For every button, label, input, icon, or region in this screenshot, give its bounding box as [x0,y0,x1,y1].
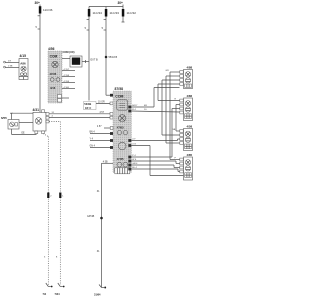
wire antenna to junction [82,59,98,64]
wire fuse 11C/33 down to module 87/58 [106,17,113,96]
svg-text:COM: COM [115,95,123,99]
svg-text:6/55: 6/55 [1,116,7,120]
pin 87/58 right r6 [128,160,131,163]
wire 4/31 to module 87/58 pin b [49,116,113,119]
svg-text:GR: GR [166,70,170,72]
svg-text:47/35: 47/35 [117,157,124,161]
wire 6/55 top stub [10,113,13,119]
pin 87/58 right r2 [128,110,131,113]
unit 4/88 [180,66,193,89]
svg-text:BL 4: BL 4 [132,167,137,169]
wire 87/58 left lead 1 [90,132,114,135]
svg-text:EXT B: EXT B [91,59,99,62]
svg-text:7/34: 7/34 [55,292,61,296]
svg-text:52/4B: 52/4B [84,102,91,106]
svg-text:G/H4B: G/H4B [87,215,95,218]
wire 87/58 stub left [97,126,113,129]
pin 87/58 right r8 [128,168,131,171]
wire riser unit 4/86 pin 2 to unit 4/58 pin 1 [176,105,180,132]
module 4/56 [48,47,62,103]
wire 6/55 to relay 4/31 lower [19,122,33,124]
svg-text:30+: 30+ [118,1,124,5]
svg-text:4 160: 4 160 [64,87,70,89]
svg-text:47/35: 47/35 [50,72,57,76]
wire 87/58 r1 to unit 4/88 bottom pin [131,88,179,108]
svg-text:COM: COM [50,54,58,58]
unit 4/85 [180,153,193,180]
svg-text:4/86: 4/86 [187,94,193,98]
svg-text:4 G: 4 G [132,144,136,146]
wire 4/56 to antenna [62,58,70,60]
ground 7/4 [43,283,53,296]
node 55/43 splice [105,56,118,59]
svg-text:4 5B: 4 5B [103,161,108,163]
svg-text:4/58: 4/58 [187,125,193,129]
svg-text:7/4: 7/4 [43,292,47,296]
wire 87/58 r5 riser up to unit 4/86 pin 3 [131,109,179,158]
ground 7/34 [55,283,65,296]
wire 87/58 left lead 2 [90,139,114,142]
unit A26 display 4/15 [19,54,28,79]
fuse 11C/36 [39,5,53,14]
connector tick dashed line 1 [44,193,52,259]
connector tick dashed line 2 [56,193,64,259]
wire riser unit 4/88 pin 2 to unit 4/58 pin 4 [166,76,180,143]
wire riser unit 4/88 pin 1 to unit 4/85 pin 1 [170,72,180,160]
wire 4/56 stub [62,97,69,99]
svg-text:31/64: 31/64 [94,293,101,297]
wire 30+ bus [89,5,123,7]
wire 6/55 to relay 4/31 upper [12,112,34,114]
svg-text:4R: 4R [144,105,147,107]
svg-text:55/43 B: 55/43 B [109,56,118,59]
connector 52/4B EF C [84,102,97,110]
svg-text:2 R: 2 R [8,61,12,63]
svg-text:4 158: 4 158 [64,75,70,77]
svg-text:10 OR: 10 OR [98,101,105,103]
svg-text:BN 4: BN 4 [90,132,96,134]
svg-text:4/31: 4/31 [33,108,40,112]
svg-text:4 57: 4 57 [97,126,102,128]
antenna unit [70,56,82,67]
wire 4/31 to module 87/58 pin a [49,112,113,115]
pin 87/58 top left [110,94,113,97]
wire riser unit 4/88 pin 3 to unit 4/58 pin 2 [162,80,180,135]
svg-text:GR 4: GR 4 [132,163,138,165]
svg-text:47/05: 47/05 [117,126,124,130]
svg-text:11C/33: 11C/33 [110,11,120,15]
unit 4/58 [180,125,193,151]
wire 87/58 r8 to unit 4/85 pin 4 [131,167,179,171]
svg-text:4/88: 4/88 [187,66,193,70]
wire A26 pin 1 [4,61,19,63]
wire 87/58 r7 to unit 4/85 pin 3 [131,163,179,167]
svg-text:11C/32: 11C/32 [127,11,137,15]
wire 4/31 bottom to 6/55 [12,129,37,135]
svg-text:EE: EE [22,133,26,135]
svg-text:4 159: 4 159 [64,81,70,83]
svg-text:4 57: 4 57 [100,112,105,114]
svg-text:COM (XX): COM (XX) [63,50,75,54]
svg-text:B/O7: B/O7 [132,105,138,107]
wire fuse 11C/36 down to relay 4/31 [36,14,41,113]
wire connector to module 87/58 pin [96,101,113,104]
svg-text:1 SB: 1 SB [8,66,13,68]
svg-text:11C/34: 11C/34 [93,11,103,15]
pin 87/58 right r3 [128,139,131,142]
wire 87/58 r4 to unit 4/85 bottom pin [131,144,183,176]
pin 87/58 right r5 [128,156,131,159]
svg-text:4/16: 4/16 [50,86,56,90]
wire 87/58 r6 to unit 4/85 pin 2 [131,159,179,163]
node splice G on ground wire [87,215,103,219]
fuse 11C/32 [122,7,137,23]
ground 31/64 [94,285,106,297]
wire 4/31 dashed to ground 7/4 [43,134,48,285]
module 87/58 [113,87,131,174]
svg-text:4 Y: 4 Y [132,139,136,141]
svg-text:87/58: 87/58 [115,87,124,91]
wire 4/56 stub rows [62,69,75,89]
wire fuse 11C/34 down [88,17,90,101]
svg-text:4 157: 4 157 [64,69,70,71]
pin 87/58 right r1 [128,106,131,109]
relay 4/31 [33,108,50,134]
wire 87/58 r2 to unit 4/86 pin 4 [131,109,179,112]
unit 6/55 [1,116,19,129]
wire 87/58 r3 to unit 4/58 pin 3 [131,139,179,141]
svg-text:EF C: EF C [85,106,91,110]
wire A26 pin 2 [4,66,19,68]
fuse 11C/33 [102,7,120,31]
wire 4/31 dashed to ground 7/34 [49,122,60,286]
svg-text:GN 4: GN 4 [90,146,96,148]
wire 87/58 ground lead [102,161,114,287]
wire riser unit 4/88 pin 4 to unit 4/86 pin 1 [158,84,180,101]
svg-text:A86: A86 [20,62,26,66]
fuse 11C/34 [85,7,103,31]
wire 87/58 left lead 3 [90,146,114,149]
pin 87/58 right r7 [128,164,131,167]
pin 87/58 right r4 [128,144,131,147]
unit 4/86 [180,94,193,120]
svg-text:4/56: 4/56 [48,47,55,51]
svg-text:30+: 30+ [35,1,41,5]
svg-text:11C/36: 11C/36 [43,8,53,12]
svg-text:4/85: 4/85 [187,153,193,157]
svg-text:4/15: 4/15 [20,54,27,58]
